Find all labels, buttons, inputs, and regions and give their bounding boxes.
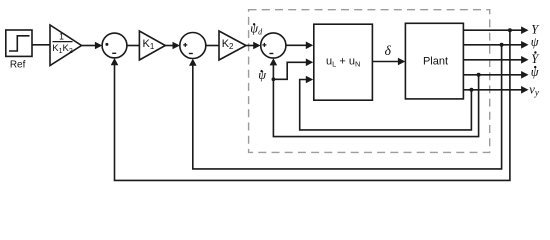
svg-text:ψ: ψ [258,68,266,82]
svg-text:δ: δ [385,43,392,58]
svg-text:Plant: Plant [423,56,448,68]
svg-text:1: 1 [59,32,64,42]
svg-text:ψ: ψ [531,35,539,49]
svg-text:Ref: Ref [10,60,26,71]
